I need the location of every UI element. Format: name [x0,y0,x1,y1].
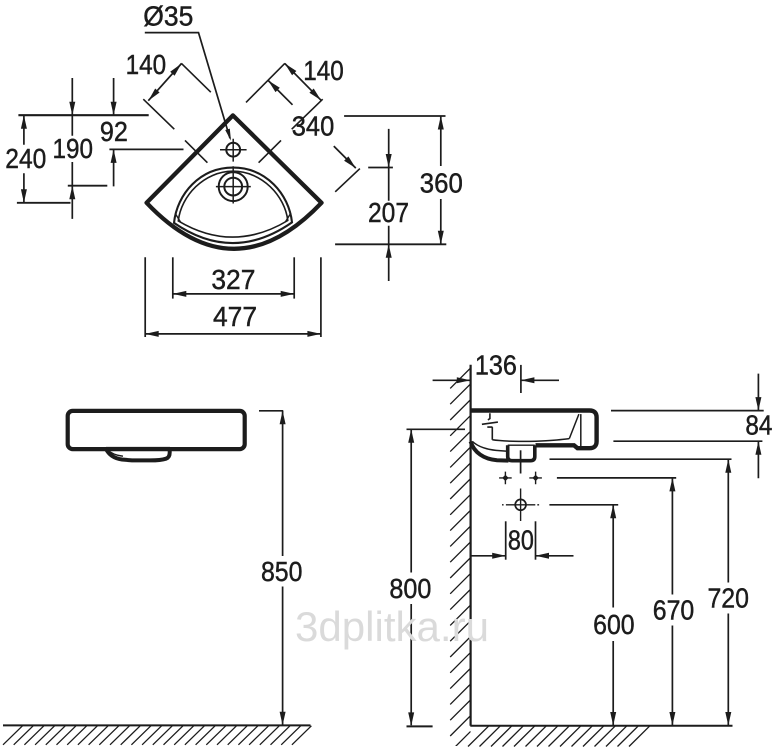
side profile trap top thin line [508,444,535,446]
plan bowl right chamfer [285,213,291,222]
dim 670 stems [671,478,673,726]
140 left extension upper [143,99,174,129]
dim 850 arrow top [280,411,286,425]
dim 136 arrow left [457,377,471,383]
dim 800 arrow top [408,429,414,443]
dim 207 arrow bottom [386,244,392,257]
dim 84 stems [757,374,759,479]
dim 327 line [173,293,294,295]
dim 80 arrow left [492,553,506,559]
plan bowl left chamfer [175,213,181,222]
dim 140 left line [148,64,181,101]
faucet hole [226,143,240,157]
svg-text:240: 240 [5,143,46,174]
svg-text:190: 190 [53,133,94,164]
670 level line [557,477,676,479]
svg-text:136: 136 [475,350,517,381]
340 corner extension [335,169,360,192]
dim 240 arrow bottom [21,189,27,203]
140 right extension tick [259,140,281,162]
dim 327 arrow right [281,291,295,297]
dim 92 arrow top [111,102,117,116]
drain crosshair [216,166,251,203]
dim 240 stems [23,115,25,203]
top level line [611,410,764,412]
side profile underside curve [471,442,509,461]
dim 340 arrow b [344,156,356,168]
dim 140 right arrow b [309,89,321,101]
dim 720 arrow top [725,459,731,473]
dim 140 left arrow b [148,89,159,101]
wall hatching [450,368,470,752]
327 extension left [172,257,174,298]
fixation hole 2 diamond [532,475,538,481]
svg-text:340: 340 [292,111,335,142]
apex level line right [344,115,445,117]
svg-text:207: 207 [368,197,409,228]
dim 477 line [145,333,321,335]
svg-text:850: 850 [261,556,303,587]
side overflow mark [482,413,498,427]
dim 136 arrow right [521,377,535,383]
side profile top and front rim [471,411,597,449]
dim 360 stems [440,116,442,244]
dim 327 arrow left [173,291,187,297]
svg-text:3dplitka.ru: 3dplitka.ru [295,603,489,650]
corner level line [17,202,71,204]
rim bottom level line [613,440,762,442]
dim 360 arrow bottom [438,231,444,245]
plan bowl inner rim [178,171,287,237]
800 top tick [407,428,466,430]
inner front level line [335,243,446,245]
dim 477 arrow right [307,331,321,337]
dim 340 line seg2 [334,146,356,168]
140 right extension upper [292,99,323,129]
svg-text:92: 92 [100,116,128,147]
dim 92 stems [113,78,115,186]
fixation hole 1 diamond [502,475,508,481]
front view trap inner line [107,449,123,456]
front view bottom thin line [106,447,170,449]
800 floor tick [407,725,433,727]
side profile trap box [508,445,535,460]
850 top tick [259,410,283,412]
front view trap outline [106,449,170,461]
side apron inner line [580,414,582,446]
front view body [68,411,245,449]
dim 340 line seg1 [268,80,292,104]
327 extension right [293,257,295,298]
dim 84 arrow top [755,397,761,411]
side bowl floor line [492,439,569,442]
drain outlet circle [515,499,526,510]
svg-text:600: 600 [593,609,635,640]
80 extension left [505,521,507,559]
svg-text:84: 84 [745,409,772,440]
svg-text:800: 800 [389,573,431,604]
dim 136 extension [520,365,522,393]
faucet level line [109,148,183,150]
477 extension right [320,257,322,337]
svg-text:670: 670 [653,594,695,625]
dim 670 arrow top [669,478,675,492]
drain inner circle [224,178,242,196]
faucet hole crosshair [220,139,247,162]
drain centerline upper [520,450,522,473]
floor line left [3,724,311,726]
svg-text:140: 140 [303,55,344,86]
dim 190 stems [71,78,73,219]
dim 670 arrow bottom [669,712,675,726]
dim 600 arrow top [610,505,616,519]
wall line [470,365,472,726]
dim 80 stems [471,555,574,557]
dim 140 right line [285,64,321,101]
svg-text:360: 360 [420,167,463,198]
80 extension right [535,521,537,559]
svg-text:Ø35: Ø35 [143,0,193,31]
fixation hole 1 crosshair [499,472,512,485]
svg-text:720: 720 [707,582,749,613]
dim 720 stems [727,459,729,725]
dim 720 arrow bottom [725,712,731,726]
side bowl front wall line [569,414,579,439]
dim 240 arrow top [21,115,27,129]
dim 140 right arrow a [285,64,297,76]
dim 340 arrow a [268,80,280,92]
dim 140 left arrow a [170,64,181,76]
dim 84 arrow bottom [755,441,761,455]
O35 leader line [145,33,230,139]
fixation hole 2 crosshair [529,472,542,485]
drain level line [68,185,108,187]
O35 leader arrowhead [225,129,231,141]
140 left extension tick [185,140,207,162]
svg-text:140: 140 [126,49,167,80]
dim 800 stems [410,429,412,725]
dim 600 arrow bottom [610,712,616,726]
svg-text:477: 477 [213,301,257,332]
drain outlet crosshair [502,489,539,522]
apex extension NE [246,63,285,102]
dim 190 arrow top [69,102,75,116]
dim 207 arrow top [386,154,392,168]
720 level line [550,458,732,460]
dim 850 arrow bottom [280,712,286,726]
floor hatching right [468,726,650,746]
477 extension left [144,257,146,337]
apex extension NW [181,63,211,92]
dim 190 arrow bottom [69,186,75,200]
plan bowl outer rim [174,168,292,243]
floor hatching left [3,726,311,745]
bowl top level line [368,167,393,169]
drain outer circle [219,172,248,201]
dim 360 arrow top [438,116,444,130]
dim 92 arrow bottom [111,149,117,163]
side bowl back wall line [491,427,493,440]
plan sink outline [147,115,322,248]
dim 850 stems [282,411,284,726]
side profile underside inner line [473,442,508,452]
dim 800 arrow bottom [408,712,414,726]
svg-text:327: 327 [211,264,255,295]
floor line right [470,725,732,727]
dim 600 stems [612,505,614,726]
dim 477 arrow left [145,331,159,337]
dim 207 stems [388,129,390,281]
dim 136 stems [433,379,559,381]
svg-text:80: 80 [508,524,534,555]
dim 80 arrow right [536,553,550,559]
apex level line left [18,114,148,116]
600 level line [549,504,618,506]
